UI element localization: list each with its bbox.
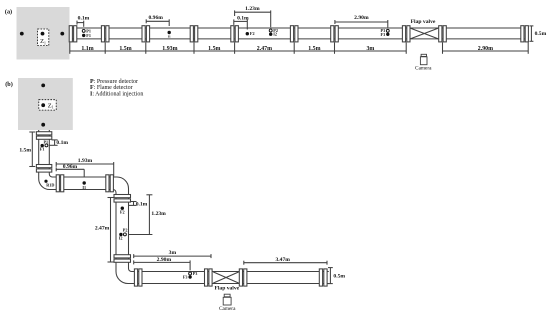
pipe B outer wall (left/bottom chain) [39, 130, 329, 284]
svg-text:0.5m: 0.5m [333, 273, 345, 279]
flange A2 [101, 26, 109, 42]
igniter dashed box Z1 (a) [38, 29, 49, 46]
svg-text:I1: I1 [168, 34, 171, 38]
sensor F2 (b) [121, 207, 124, 210]
svg-text:F2: F2 [120, 210, 125, 215]
dim tick (a) #3 [145, 42, 147, 53]
flange B4 [106, 175, 114, 192]
dim 1.93m (b) [56, 158, 113, 177]
flange A1 [69, 26, 77, 42]
igniter dashed box Z1 (b) [39, 100, 56, 110]
sensor F2 (a) [246, 32, 249, 35]
chamber A (ignition vessel) [17, 7, 70, 60]
dim 0.1m (a) near F2 [234, 16, 249, 30]
flange A3 [142, 26, 150, 42]
dim tick (a) #10 [527, 42, 529, 53]
svg-text:2.90m: 2.90m [354, 15, 369, 21]
dim 3m (b) [134, 250, 211, 258]
dim tick (a) #8 [405, 42, 407, 53]
dim tick (a) #2 [104, 42, 106, 53]
svg-text:0.5m: 0.5m [535, 31, 547, 37]
svg-text:I2: I2 [273, 32, 277, 37]
flange A5 [231, 26, 239, 42]
dim 3.47m (b) [244, 257, 327, 265]
svg-text:P3: P3 [193, 271, 198, 276]
pipe A bottom wall [70, 38, 529, 40]
svg-text:I1: I1 [82, 185, 86, 190]
svg-text:0.1m: 0.1m [78, 16, 90, 22]
chamber A right dot [60, 32, 64, 36]
flange B7 [134, 269, 142, 286]
flap valve A cross [411, 28, 438, 38]
flange B6 [114, 255, 131, 263]
svg-text:2.90m: 2.90m [478, 46, 493, 52]
dim tick (a) #7 [334, 42, 336, 53]
svg-text:I: Additional injection: I: Additional injection [90, 91, 143, 97]
svg-text:1.93m: 1.93m [162, 46, 177, 52]
sensor P2 (a) [269, 29, 272, 32]
camera icon (a) [420, 54, 427, 64]
dim tick (a) #9 [442, 42, 444, 53]
svg-text:0.1m: 0.1m [136, 201, 148, 207]
svg-text:(a): (a) [5, 9, 12, 16]
sensor I2 (a) [269, 33, 272, 36]
flange B10 end [319, 269, 327, 286]
svg-text:P2: P2 [123, 228, 128, 233]
svg-text:0.96m: 0.96m [63, 164, 78, 170]
sensor F1 (b) [41, 144, 44, 147]
svg-text:Flap valve: Flap valve [411, 19, 436, 25]
svg-text:2.90m: 2.90m [157, 257, 172, 263]
chamber B top dot [41, 84, 45, 88]
flange A6 [290, 26, 298, 42]
pipe B inner wall (right/top chain) [49, 130, 329, 272]
flap valve B left flange [205, 269, 213, 286]
svg-text:1.23m: 1.23m [245, 6, 260, 12]
dim 2.90m (a) top [335, 15, 388, 27]
flap valve A left flange [402, 26, 410, 42]
dim 0.5m (b) pipe diameter [328, 268, 345, 284]
svg-text:0.1m: 0.1m [56, 140, 68, 146]
dim 0.96m (a) [146, 15, 169, 26]
dim tick (a) #4 [193, 42, 195, 53]
chamber B [18, 78, 73, 130]
svg-text:1.93m: 1.93m [78, 158, 93, 164]
pipe A top wall [70, 27, 529, 29]
svg-text:1.5m: 1.5m [119, 46, 131, 52]
dim 0.1m (b) near P1 [49, 140, 68, 146]
svg-text:F1: F1 [40, 146, 45, 151]
flange A7 [331, 26, 339, 42]
svg-text:F2: F2 [250, 31, 255, 36]
svg-text:F3: F3 [381, 32, 386, 37]
svg-text:R1D: R1D [46, 183, 54, 188]
dim 0.96m (b) [56, 164, 84, 177]
dim 1.5m (b) [19, 132, 35, 167]
dim chain line (a) right of valve [443, 50, 529, 52]
flap valve B right flange [239, 269, 247, 286]
sensor F3 (b) [188, 275, 191, 278]
svg-text:Camera: Camera [415, 66, 432, 72]
dim 0.5m (a) pipe diameter [529, 26, 546, 41]
svg-text:3m: 3m [366, 46, 374, 52]
flange B2 [36, 165, 51, 173]
svg-text:P: Pressure detector: P: Pressure detector [90, 79, 138, 85]
chamber B bottom dot [41, 123, 45, 127]
dim 2.47m (b) [95, 198, 114, 263]
flange A4 [190, 26, 198, 42]
dim 0.1m (b) near F2 [129, 201, 148, 207]
dim tick (a) #6 [293, 42, 295, 53]
chamber B middle dot [41, 103, 45, 107]
dim tick (a) #5 [234, 42, 236, 53]
chamber A left dot [20, 32, 24, 36]
sensor P1 (a) [82, 29, 85, 32]
camera icon (b) [223, 294, 231, 305]
svg-text:1.23m: 1.23m [151, 211, 166, 217]
elbow label R1D dot [44, 180, 47, 183]
flange B5 [114, 195, 131, 203]
svg-text:2.47m: 2.47m [257, 46, 272, 52]
svg-text:F: Flame detector: F: Flame detector [90, 85, 133, 91]
sensor P1 (b) [45, 144, 48, 147]
chamber A center dot [41, 32, 45, 36]
sensor F3 (a) [386, 33, 389, 36]
svg-text:0.96m: 0.96m [148, 15, 163, 21]
sensor P3 (b) [189, 272, 192, 275]
dim chain line (a) left of valve [70, 50, 406, 52]
sensor I1 (a) [168, 31, 171, 34]
svg-text:(b): (b) [5, 81, 13, 88]
svg-text:I2: I2 [119, 236, 123, 241]
sensor F1 (a) [82, 34, 85, 37]
sensor I1 (b) [83, 181, 86, 184]
svg-text:F1: F1 [86, 33, 91, 38]
svg-text:F3: F3 [183, 275, 188, 280]
sensor P2 (b) [123, 233, 126, 236]
dim 2.90m (b) [134, 257, 190, 270]
svg-text:0.1m: 0.1m [237, 16, 249, 22]
flap valve B cross [213, 272, 239, 283]
svg-text:3m: 3m [169, 250, 177, 256]
flange B3 [56, 175, 64, 192]
svg-text:3.47m: 3.47m [275, 257, 290, 263]
dim 0.1m (a) near P1 [77, 16, 90, 27]
flange A10 end [521, 26, 529, 42]
dim 1.23m (b) [129, 195, 166, 235]
svg-text:Camera: Camera [219, 306, 236, 312]
svg-text:1.5m: 1.5m [19, 148, 31, 154]
svg-text:1.5m: 1.5m [308, 46, 320, 52]
flange B1 [36, 132, 51, 140]
sensor P3 (a) [386, 29, 389, 32]
svg-text:1.1m: 1.1m [81, 46, 93, 52]
svg-text:2.47m: 2.47m [95, 226, 110, 232]
dim tick (a) #1 [69, 42, 71, 53]
sensor I2 (b) [119, 233, 122, 236]
svg-text:1.5m: 1.5m [208, 46, 220, 52]
dim 1.23m (a) [235, 6, 271, 27]
flap valve A right flange [439, 26, 447, 42]
svg-text:Flap valve: Flap valve [214, 285, 239, 291]
